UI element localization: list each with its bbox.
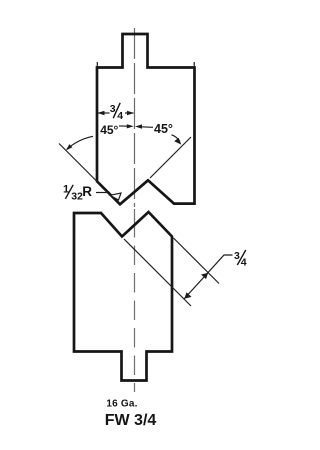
svg-text:16 Ga.: 16 Ga. (106, 399, 137, 410)
punch P1 (top tool outline) (97, 34, 195, 204)
die D1 (bottom tool outline) (74, 212, 172, 381)
svg-text:FW 3/4: FW 3/4 (105, 412, 157, 429)
svg-text:32: 32 (71, 191, 83, 203)
dimension 3/4 (die opening) (184, 250, 247, 299)
svg-text:4: 4 (117, 110, 123, 122)
svg-text:4: 4 (241, 257, 247, 269)
svg-text:45°: 45° (154, 122, 173, 136)
svg-text:45°: 45° (100, 123, 118, 137)
tick overshoot right shoulder (193, 62, 195, 67)
svg-text:R: R (82, 184, 92, 199)
label 45 deg left (66, 123, 134, 151)
extension line of punch V right face (150, 137, 191, 178)
label 1/32 R (tip radius) (63, 184, 121, 203)
extension line of die V left face (124, 239, 191, 306)
centerline gap dash (between punch and die) (134, 209, 136, 220)
centerline lower segment (die axis) (134, 218, 136, 392)
extension line of punch V left face (59, 144, 98, 183)
svg-text:3: 3 (234, 250, 240, 262)
label 45 deg right (135, 122, 181, 145)
extension line of die right slope (174, 238, 220, 284)
dimension 3/4 (punch, top) (98, 103, 135, 122)
tick overshoot left shoulder (96, 62, 98, 67)
centerline upper segment (punch axis) (134, 28, 136, 207)
